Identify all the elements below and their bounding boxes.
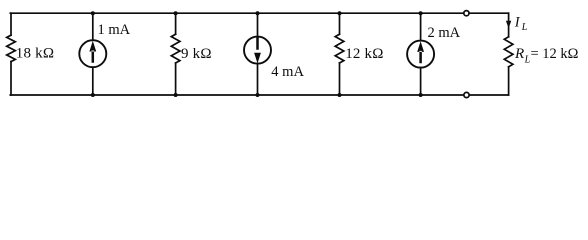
wire stub above 1 mA source [92, 13, 94, 40]
svg-text:= 12 kΩ: = 12 kΩ [531, 46, 579, 62]
junction dot top of 2 mA branch [419, 11, 423, 15]
junction dot bottom of 1 mA branch [91, 93, 95, 97]
current source I1 circle (1 mA) [79, 40, 106, 67]
junction dot top of 12 kOhm branch [338, 11, 342, 15]
svg-text:L: L [521, 22, 528, 33]
wire stub below 4 mA source [257, 64, 259, 95]
wire stub above 2 mA source [420, 13, 422, 40]
junction dot bottom of 4 mA branch [256, 93, 260, 97]
arrow inside 4 mA source (pointing down) [254, 37, 261, 63]
svg-text:4 mA: 4 mA [271, 64, 304, 80]
resistor 12 kOhm zigzag [335, 34, 344, 63]
svg-text:2 mA: 2 mA [428, 25, 461, 41]
wire right edge lower segment [508, 67, 510, 95]
wire stub above 4 mA source [257, 13, 259, 36]
wire stub below 9 kOhm resistor [175, 63, 177, 95]
wire stub below 1 mA source [92, 67, 94, 95]
junction dot bottom of 9 kOhm branch [174, 93, 178, 97]
current source I2 circle (4 mA) [244, 37, 271, 64]
wire stub above 12 kOhm resistor [339, 13, 341, 34]
resistor 9 kOhm zigzag [171, 34, 180, 63]
wire left edge upper segment [10, 13, 12, 35]
svg-text:12 kΩ: 12 kΩ [345, 46, 383, 62]
svg-text:R: R [514, 46, 524, 62]
junction dot top of 4 mA branch [256, 11, 260, 15]
junction dot top of 1 mA branch [91, 11, 95, 15]
IL current arrowhead on right edge [506, 21, 511, 28]
wire stub below 2 mA source [420, 68, 422, 95]
svg-text:I: I [514, 14, 521, 30]
arrow inside 1 mA source (pointing up) [89, 41, 96, 63]
wire stub above 9 kOhm resistor [175, 13, 177, 34]
current source I3 circle (2 mA) [407, 41, 434, 68]
wire bottom bus [10, 94, 508, 96]
junction dot bottom of 2 mA branch [419, 93, 423, 97]
resistor RL zigzag [504, 37, 513, 67]
wire left edge lower segment [10, 62, 12, 95]
wire right edge upper segment [508, 13, 510, 37]
svg-text:18 kΩ: 18 kΩ [16, 46, 54, 62]
svg-text:9 kΩ: 9 kΩ [181, 46, 212, 62]
junction dot top of 9 kOhm branch [174, 11, 178, 15]
svg-text:1 mA: 1 mA [98, 22, 131, 38]
arrow inside 2 mA source (pointing up) [417, 41, 424, 63]
wire top bus [10, 12, 508, 14]
junction dot bottom of 12 kOhm branch [338, 93, 342, 97]
resistor 18 kOhm zigzag [7, 35, 16, 61]
terminal node top (open circle) [464, 11, 469, 16]
terminal node bottom (open circle) [464, 92, 469, 97]
wire stub below 12 kOhm resistor [339, 63, 341, 95]
